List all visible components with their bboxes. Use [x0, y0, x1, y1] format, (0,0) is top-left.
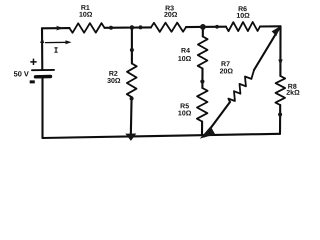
node junction top of R2: [130, 25, 135, 30]
arrowhead of current arrow I: [66, 40, 72, 44]
svg-text:10Ω: 10Ω: [178, 110, 192, 117]
svg-text:10Ω: 10Ω: [79, 12, 93, 19]
resistor R5: [197, 88, 208, 122]
svg-text:30Ω: 30Ω: [107, 78, 121, 85]
label battery plus: [30, 59, 36, 65]
resistor R7: [228, 70, 254, 102]
resistor R2: [127, 64, 137, 98]
arrowhead on top wire near battery: [56, 26, 64, 31]
node dot on R2 branch lower: [130, 97, 134, 101]
svg-text:20Ω: 20Ω: [164, 12, 178, 19]
svg-text:R2: R2: [109, 71, 118, 78]
resistor R3: [151, 23, 186, 32]
svg-text:10Ω: 10Ω: [236, 13, 250, 20]
arrowhead bottom of R2 branch: [125, 134, 136, 141]
arrowhead on left vertical wire: [40, 37, 44, 43]
node dot on R2 branch upper: [130, 48, 134, 52]
label battery minus: [30, 80, 35, 83]
wire bottom: [43, 134, 281, 138]
arrowhead bottom of R7 diagonal: [200, 126, 215, 138]
current arrow I line: [46, 41, 69, 43]
svg-text:10Ω: 10Ω: [178, 56, 192, 63]
wire right vertical: [279, 26, 282, 134]
resistor R4: [198, 37, 208, 69]
node junction top of R4: [200, 24, 206, 30]
resistor R1: [70, 23, 105, 33]
wire R4-R5 branch vertical: [201, 27, 204, 135]
svg-text:20Ω: 20Ω: [220, 68, 234, 75]
wire top (from battery + up and across): [42, 26, 281, 28]
svg-text:50 V: 50 V: [14, 69, 29, 78]
svg-text:R4: R4: [181, 48, 190, 55]
wire R7 diagonal: [205, 27, 280, 136]
wire R2 branch vertical: [131, 28, 132, 137]
node dot right of R2 junction: [139, 25, 143, 29]
label current I: [54, 48, 57, 52]
node dot after R1: [109, 26, 113, 30]
node dot below R8: [278, 113, 282, 117]
svg-text:R7: R7: [221, 61, 230, 68]
resistor R8: [275, 76, 285, 105]
arrowhead top of R7 diagonal: [272, 26, 280, 36]
svg-text:2kΩ: 2kΩ: [286, 90, 300, 97]
resistor R6: [226, 22, 260, 31]
node dot between R4 and R5: [200, 79, 204, 83]
node dot right of R4 junction: [215, 25, 219, 29]
battery 50V short plate: [36, 75, 51, 79]
wire left vertical: [41, 28, 44, 138]
arrowhead on right vertical above R8: [278, 59, 282, 65]
battery 50V long plate: [32, 69, 54, 71]
svg-text:R5: R5: [180, 103, 189, 110]
